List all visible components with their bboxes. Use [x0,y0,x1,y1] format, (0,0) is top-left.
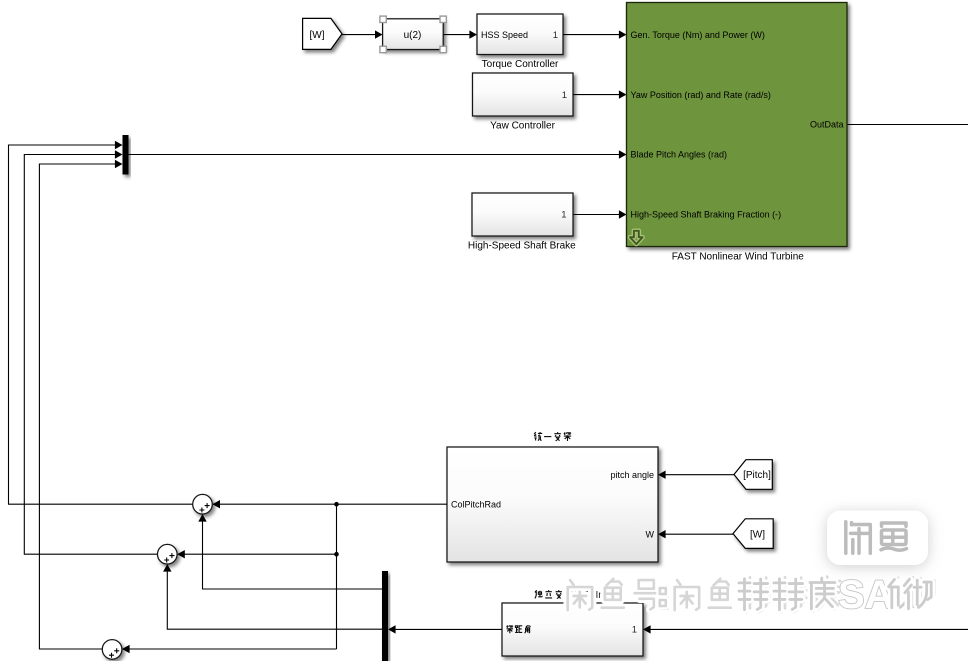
junction node on branch vertical [334,552,339,557]
wire sum S3 output to mux input 3 [39,160,122,649]
svg-text:Gen. Torque (Nm) and Power (W): Gen. Torque (Nm) and Power (W) [631,30,765,40]
svg-text:1: 1 [561,210,566,221]
block Torque Controller [477,14,563,70]
svg-text:u(2): u(2) [404,30,422,41]
wire demux output 1 to sum S1 bottom input [198,514,382,589]
wire ColPitchRad branch vertical [336,504,338,649]
from tag [Pitch] [734,460,772,490]
svg-text:1: 1 [553,30,558,41]
from tag [W] bottom [733,519,773,549]
block unified pitch (tong yi bian jiang) [447,447,658,562]
svg-text:OutData: OutData [810,120,844,130]
svg-text:Torque Controller: Torque Controller [482,59,559,70]
wire branch to sum S2 right input [177,550,336,558]
selection handle top-left [380,16,386,22]
svg-text:[W]: [W] [750,530,765,541]
label pitch angle CJK inside block [506,625,530,633]
selection handle bottom-right [440,46,446,52]
wire sum S2 output to mux input 2 [24,150,157,554]
sum S3 [102,640,122,660]
svg-text:HSS Speed: HSS Speed [481,30,528,40]
svg-text:High-Speed Shaft Braking Fract: High-Speed Shaft Braking Fraction (-) [631,210,782,220]
block High-Speed Shaft Brake [468,193,576,251]
demux bar [382,571,388,661]
link badge arrow icon on FAST block [630,231,643,244]
wire Yaw Controller to FAST input 2 [573,90,627,98]
wire branch to sum S3 right input [122,645,337,653]
svg-text:pitch angle: pitch angle [610,470,654,480]
sum S2 [158,544,178,564]
wire Torque Controller to FAST input 1 [563,30,627,38]
svg-text:1: 1 [632,625,637,636]
svg-text:Yaw Position (rad) and Rate (r: Yaw Position (rad) and Rate (rad/s) [631,90,771,100]
wire ColPitchRad to sum S1 right input [212,500,447,508]
svg-text:Yaw Controller: Yaw Controller [490,120,556,131]
svg-text:1: 1 [562,90,567,101]
wire mux output to FAST input 3 [129,150,627,158]
title independent pitch CJK [535,590,607,601]
wire [W] to u(2) [342,30,383,38]
wire u(2) to Torque Controller [443,30,477,38]
svg-text:FAST Nonlinear Wind Turbine: FAST Nonlinear Wind Turbine [672,252,805,263]
wire sum S1 output to mux input 1 [9,141,193,504]
from tag [W] top [303,18,342,49]
wire demux output 2 to sum S2 bottom input [163,564,382,629]
wire from tag Pitch to unified pitch block input 1 [658,471,734,479]
fcn block u(2) [383,19,444,50]
svg-text:High-Speed Shaft Brake: High-Speed Shaft Brake [468,240,576,251]
svg-text:Blade Pitch Angles (rad): Blade Pitch Angles (rad) [631,150,728,160]
svg-text:[W]: [W] [310,30,325,41]
wire from tag W2 to unified pitch block input 2 [658,530,733,538]
title unified pitch CJK [534,432,571,441]
wire pitch block output to demux input [388,625,502,633]
wire High-Speed Shaft Brake to FAST input 4 [573,210,627,218]
svg-text:SA: SA [838,573,894,617]
selection handle bottom-left [380,46,386,52]
svg-text:ColPitchRad: ColPitchRad [451,500,501,510]
sum S1 [193,494,213,514]
selection handle top-right [440,16,446,22]
block Yaw Controller [473,73,574,131]
wire right edge to pitch block input [643,625,968,633]
svg-text:[Pitch]: [Pitch] [743,470,771,481]
junction node on ColPitchRad wire [334,502,339,507]
watermark text xianyuhao [568,573,935,617]
watermark logo xianyu [827,511,928,566]
block independent pitch (jiang ju jiao) [502,603,643,656]
wire OutData output [847,124,968,126]
block FAST Nonlinear Wind Turbine [627,3,848,263]
mux bar [123,135,129,175]
svg-text:W: W [646,530,655,540]
